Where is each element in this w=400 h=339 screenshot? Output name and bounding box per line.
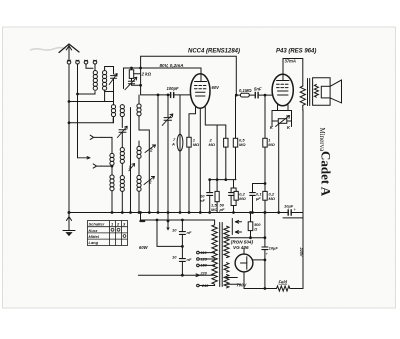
antenna terminal A2	[76, 60, 80, 64]
wire: coil L2 to variable capacitor C1 branch	[105, 67, 114, 75]
wire: rectifier bottom to field coil	[244, 272, 277, 289]
wire: bottom return to ground line	[69, 92, 114, 102]
node on inner rail	[131, 67, 133, 69]
resistor R8 0.1MOhm (horizontal)	[236, 93, 254, 97]
svg-text:125: 125	[201, 257, 208, 261]
svg-text:Ω: Ω	[253, 228, 257, 232]
svg-text:2 kΩ: 2 kΩ	[141, 72, 152, 77]
coil L4	[120, 105, 124, 117]
mains lead connector	[139, 220, 145, 222]
svg-text:MΩ: MΩ	[193, 142, 200, 147]
primary tap 240	[197, 284, 215, 287]
tube V2 P43	[272, 74, 293, 106]
wire: C2 down	[121, 132, 123, 147]
node on grid wire	[157, 94, 159, 96]
svg-text:700V: 700V	[237, 283, 248, 288]
svg-text:Mittel: Mittel	[89, 234, 100, 239]
capacitor C10 10nF	[179, 220, 185, 246]
wire: L7 bottom L-bend	[139, 116, 149, 213]
power transformer T2 heater winding 1	[224, 263, 229, 273]
primary tap 110	[197, 251, 215, 254]
dial lamp drop	[167, 213, 169, 228]
svg-text:10µF: 10µF	[269, 246, 279, 251]
svg-text:pF: pF	[219, 207, 225, 212]
wire: C5 branch to bus	[167, 95, 169, 213]
svg-text:Kurz: Kurz	[89, 228, 98, 233]
wire: terminal A1 down to chassis bus	[68, 64, 70, 213]
antenna terminal A3	[84, 60, 88, 64]
wire: L10-L11 and to bus	[121, 163, 123, 212]
switch contact S2a with label 2	[145, 145, 156, 153]
resistor R9 1MOhm grid leak	[263, 95, 267, 212]
coil L10	[120, 148, 124, 164]
node row y179.6	[210, 179, 236, 181]
faint pencil smudge	[30, 48, 66, 50]
svg-text:MΩ: MΩ	[211, 207, 218, 212]
svg-text:220: 220	[200, 271, 208, 275]
chassis bus	[69, 212, 303, 214]
wire: C1 bottom / coil L2 bottom	[105, 79, 114, 102]
output transformer T1 primary	[300, 86, 305, 105]
fuse F1 7A	[177, 95, 183, 213]
node: grid of V2	[264, 94, 266, 96]
capacitor C4 100pF	[170, 92, 175, 98]
svg-text:10µF: 10µF	[284, 204, 294, 209]
wire: terminal A4 to coil L1 top	[94, 64, 96, 71]
capacitor C12 10uF electrolytic	[262, 213, 268, 289]
power transformer T2 secondary HV winding	[224, 226, 229, 257]
power transformer T2 heater winding 2	[224, 275, 229, 288]
wire: grid line to tube V1	[141, 85, 191, 95]
primary tap 125	[197, 258, 215, 261]
svg-text:MΩ: MΩ	[239, 196, 246, 201]
svg-text:(RGN 504): (RGN 504)	[231, 240, 254, 245]
svg-text:10: 10	[172, 228, 177, 233]
inner supply rail 80V	[124, 68, 202, 75]
svg-text:500: 500	[254, 223, 261, 227]
coil L11	[120, 176, 124, 192]
power transformer T2 primary winding	[212, 220, 217, 286]
resistor R2 1MOhm	[187, 137, 191, 212]
switch contact S2b with label 2	[144, 176, 155, 184]
svg-text:225V: 225V	[299, 247, 303, 257]
switch contact S3	[129, 164, 135, 171]
variable capacitor C5	[162, 114, 173, 126]
capacitor C7 50pF + resistor R6 0.2MOhm	[229, 180, 239, 213]
primary tap 150	[197, 264, 215, 267]
ground	[63, 213, 75, 236]
svg-text:Cadet A: Cadet A	[319, 151, 334, 197]
mains line lower	[138, 274, 214, 276]
coil L6	[110, 175, 114, 191]
wire: V2 cathode return to bus	[278, 123, 280, 212]
svg-text:+: +	[294, 207, 297, 212]
svg-text:P43 (RES 964): P43 (RES 964)	[276, 49, 316, 55]
svg-text:Feld: Feld	[279, 280, 288, 285]
capacitor C9 5nF	[255, 92, 273, 99]
wire to reservoir cap	[227, 237, 265, 239]
switch table	[88, 221, 128, 246]
resistor R7 0.2MOhm	[263, 191, 267, 200]
resistor R4 0.5MOhm	[233, 95, 237, 180]
wire: L8/L9 column	[138, 95, 140, 213]
tube V1 pins	[189, 107, 196, 137]
wire: L5/L6 column to bus	[111, 165, 113, 212]
coil L7	[137, 104, 141, 116]
capacitor C8 0.1uF	[250, 184, 265, 213]
svg-text:+: +	[266, 252, 269, 257]
field coil (Feld)	[277, 286, 304, 291]
wire: terminal A3 stub	[86, 64, 93, 69]
svg-text:0,1MΩ: 0,1MΩ	[239, 88, 252, 93]
wire: oscillator column x130.5 to bus	[130, 108, 132, 213]
rectifier heater wires	[227, 278, 241, 285]
wire: right column down	[302, 213, 304, 289]
wire: x158 branch to bus	[157, 95, 159, 213]
coil L2	[103, 71, 107, 91]
resistor R3 2MOhm	[217, 125, 228, 180]
tube V2 cathode network	[272, 105, 292, 127]
wire: T1 primary bottom down	[302, 105, 304, 212]
antenna terminal A4	[93, 60, 97, 64]
mains line upper	[141, 213, 215, 221]
capacitor C13 10uF electrolytic on bus	[283, 209, 303, 218]
node: bus/ground junction	[68, 212, 70, 214]
power transformer T2 core	[220, 223, 223, 287]
resistor R5 1.5MOhm	[215, 191, 219, 212]
resistor R10 500 Ohm	[248, 213, 253, 238]
wire: coil L1 bottom to terminal A2 line	[78, 92, 96, 95]
pickup terminal bracket	[232, 219, 241, 235]
svg-text:nF: nF	[200, 198, 205, 203]
svg-text:37mA: 37mA	[285, 59, 296, 64]
svg-text:nF: nF	[187, 257, 192, 262]
wire: S1a to coil L5 column	[101, 137, 112, 153]
wire: S1c stub	[101, 165, 112, 167]
svg-text:nF: nF	[187, 230, 192, 235]
svg-text:100pF: 100pF	[167, 86, 180, 91]
svg-text:Schalter: Schalter	[89, 222, 105, 227]
switch contact S1a (fork)	[90, 135, 101, 139]
wire rectifier cathode to cap	[253, 259, 265, 261]
svg-text:NCC4 (RENS1284): NCC4 (RENS1284)	[188, 49, 240, 55]
switch contact S1c (fork)	[93, 164, 101, 168]
svg-text:5nF: 5nF	[254, 87, 262, 92]
svg-text:150: 150	[201, 264, 208, 268]
capacitor C6 20nF	[207, 180, 213, 213]
svg-text:A: A	[171, 142, 175, 147]
antenna terminal A1	[67, 60, 71, 64]
svg-text:MΩ: MΩ	[209, 142, 216, 147]
variable capacitor C1	[109, 74, 117, 85]
wire: terminal A2 down	[77, 64, 79, 158]
coil L9	[137, 175, 141, 191]
variable capacitor C2 (tuning)	[117, 126, 127, 137]
node at (77.5,94)	[77, 93, 79, 95]
outer supply rail	[141, 56, 237, 95]
svg-text:2: 2	[148, 180, 152, 185]
coil L3	[111, 105, 115, 117]
wire: coil bottoms return y122.8	[69, 118, 113, 123]
antenna	[59, 44, 79, 61]
trimmer capacitor C3	[125, 77, 137, 90]
svg-text:110: 110	[201, 251, 208, 255]
coil L1 (antenna coil)	[93, 71, 97, 91]
svg-text:2: 2	[149, 148, 153, 153]
coil L5	[110, 153, 114, 165]
svg-text:MΩ: MΩ	[269, 196, 276, 201]
loudspeaker LS1	[313, 78, 342, 106]
svg-text:MΩ: MΩ	[239, 142, 246, 147]
svg-text:Minerva: Minerva	[318, 128, 326, 153]
wire: V2 plate to output transformer	[283, 59, 303, 87]
svg-text:10: 10	[172, 255, 177, 260]
switch arm S1b	[78, 157, 91, 159]
svg-text:Lang: Lang	[89, 240, 99, 245]
output transformer T1 core	[308, 79, 310, 106]
svg-text:µF: µF	[255, 196, 261, 201]
svg-text:240: 240	[201, 284, 209, 288]
svg-text:60V: 60V	[212, 85, 221, 90]
wire: L3 column down	[113, 102, 115, 123]
tube V1 NCC4	[190, 74, 210, 109]
node: detector output	[235, 94, 237, 96]
wire: L4 column	[121, 105, 123, 128]
svg-text:MΩ: MΩ	[268, 142, 275, 147]
rectifier tube V3	[235, 248, 253, 272]
capacitor C11 10nF	[179, 246, 185, 275]
wire: x140.6 down from rail to grid node	[140, 68, 142, 85]
wire: left AVC column x123.5 from inner rail	[123, 68, 125, 89]
resistor R1 2kOhm	[129, 68, 140, 81]
svg-text:80V, 0,2mA: 80V, 0,2mA	[160, 63, 184, 68]
svg-text:VG 406: VG 406	[233, 245, 249, 250]
coil L8	[137, 146, 141, 158]
svg-text:60W: 60W	[139, 245, 149, 250]
wire: trimmer bottom junction	[132, 84, 141, 86]
wire: lamp branch	[157, 220, 182, 246]
